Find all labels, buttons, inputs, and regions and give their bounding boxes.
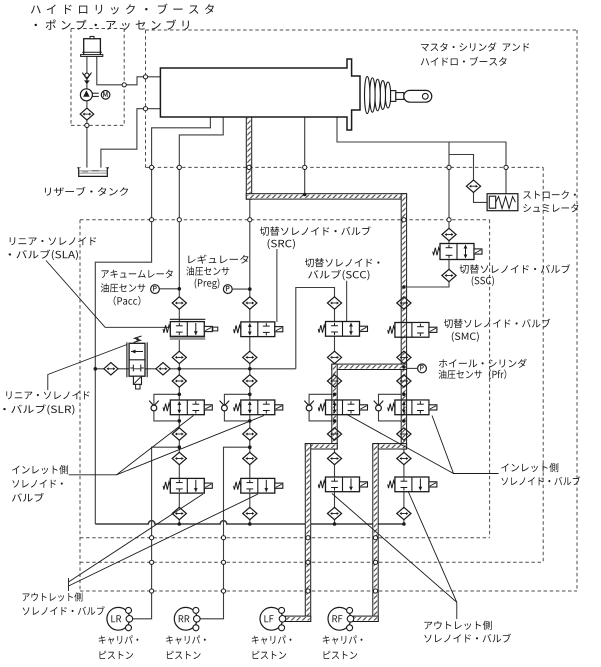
wire accumulator line vertical to tank: [86, 56, 88, 168]
junction FR bypass bottom: [402, 419, 406, 423]
outlet solenoid valve FR: [395, 477, 429, 492]
label SMC line1: [444, 319, 550, 328]
junction Preg tap: [248, 287, 252, 291]
dashed box B right edge x=490: [489, 220, 491, 538]
filter above SLA: [172, 297, 186, 309]
junction SSC to main: [402, 285, 406, 289]
port Hout LR: [150, 589, 154, 593]
port H2 x506: [504, 165, 508, 169]
shared dashed left edge x=80: [79, 220, 81, 591]
port Hout RF: [373, 589, 377, 593]
label outlet left line1: [23, 592, 83, 601]
wire bridge to SCC: [296, 288, 335, 369]
label caliper LR line2: [99, 651, 133, 659]
accumulator: [84, 39, 101, 56]
filter (pump suction): [80, 108, 94, 120]
hatched pipe MC port3 down: [246, 117, 251, 199]
inlet solenoid valve RR: [241, 400, 275, 415]
label outlet left line2: [23, 606, 105, 615]
label Pacc line3: [114, 296, 141, 306]
caliper piston RF: [328, 607, 351, 630]
port H3 x152: [150, 218, 154, 222]
filter below inlet FR: [397, 428, 411, 440]
port H2 x179: [177, 165, 181, 169]
dashed box B top edge y=220: [80, 219, 490, 221]
port H3 x250: [248, 218, 252, 222]
dashed box A right edge x=543: [542, 167, 544, 562]
master cylinder and hydro booster body: [160, 59, 360, 130]
linear solenoid valve SLR: [126, 342, 128, 377]
inlet solenoid valve FL: [326, 400, 360, 415]
switching solenoid valve SSC: [440, 244, 474, 260]
label SCC line2: [308, 270, 369, 281]
bypass check valve FR: [374, 401, 384, 406]
port MC supply: [143, 75, 147, 79]
hatched pipe Pfr row y=367: [332, 364, 407, 369]
filter above inlet LR: [172, 375, 186, 387]
outer actuator dashed box bottom edge: [80, 590, 577, 592]
label SLR line1: [6, 391, 89, 399]
outer actuator dashed box right edge: [576, 30, 578, 591]
label Pfr line1: [439, 359, 527, 368]
label caliper RF line1: [323, 635, 363, 644]
motor M: [101, 91, 110, 100]
filter below SCC: [327, 351, 341, 363]
label Pacc line2: [101, 283, 146, 292]
label caliper LR line1: [99, 635, 139, 644]
label SSC line1: [459, 264, 570, 273]
junction SLA output: [178, 367, 182, 371]
hatched pipe LF feed vertical x=308: [305, 444, 310, 622]
pointer SRC label: [276, 249, 278, 322]
wire SSC branch: [404, 142, 449, 287]
junction FL bypass bottom: [333, 419, 337, 423]
filter above inlet FR: [397, 375, 411, 387]
label hydraulic booster pump line1: [31, 4, 214, 15]
booster boot bellows: [385, 82, 390, 108]
label caliper RR line2: [167, 651, 201, 659]
pointer SLR label: [48, 345, 127, 391]
wire inlet FR bypass loop: [379, 394, 404, 421]
filter above SCC: [327, 297, 341, 309]
port HA LR: [150, 560, 154, 564]
label caliper LF line2: [253, 651, 287, 659]
label inlet right line2: [501, 476, 580, 485]
filter below inlet RR: [243, 428, 257, 440]
junction Pacc tap: [178, 287, 182, 291]
filter below outlet LR: [172, 507, 186, 519]
label hydraulic booster pump line2: [35, 19, 189, 30]
junction LR bypass top: [178, 393, 182, 397]
wire inlet RR bypass loop: [224, 394, 249, 421]
wire inlet FL bypass loop: [309, 394, 334, 421]
port H2 x249: [247, 165, 251, 169]
wire SLR branch y=369: [95, 368, 295, 370]
dashed box A bottom edge y=562: [80, 561, 543, 563]
label outlet right line2: [424, 634, 511, 643]
label Pfr line2: [438, 370, 506, 380]
label SLR line2: [3, 404, 74, 415]
bypass check valve RR: [220, 401, 230, 406]
junction return FL: [333, 522, 337, 526]
filter below inlet FL: [327, 428, 341, 440]
wire front-left column x=334: [334, 303, 336, 524]
caliper piston RR: [174, 607, 197, 630]
junction return FR: [402, 522, 406, 526]
filter above SRC: [243, 297, 257, 309]
hatched pipe corner to RF feed: [373, 444, 407, 449]
junction FR bypass top: [402, 393, 406, 397]
label reserve tank: [45, 187, 128, 196]
switching solenoid valve SRC: [241, 322, 275, 337]
filter right of SLR: [156, 363, 170, 375]
junction SLR return: [94, 367, 98, 371]
junction LR bypass bottom: [178, 419, 182, 423]
label master cylinder line1: [421, 42, 529, 51]
wire MC port1 return path: [95, 117, 210, 524]
junction RR bypass bottom: [248, 419, 252, 423]
port pump node: [122, 83, 126, 87]
wire Pfr sensor stub: [407, 367, 418, 369]
port H2 x305: [303, 165, 307, 169]
filter below outlet RR: [243, 507, 257, 519]
push rod clevis: [391, 91, 396, 102]
label SSC line2: [472, 276, 494, 286]
inlet solenoid valve FR: [395, 400, 429, 415]
inlet solenoid valve LR: [170, 400, 204, 415]
bypass check valve LR: [149, 401, 159, 406]
filter above SSC: [442, 228, 456, 240]
outlet solenoid valve FL: [326, 477, 360, 492]
pressure sensor Preg: [223, 285, 232, 294]
filter above SMC: [397, 297, 411, 309]
junction return LR: [178, 522, 182, 526]
label caliper RF line2: [324, 651, 358, 659]
junction RR takeoff: [248, 445, 252, 449]
filter above outlet RR: [243, 452, 257, 464]
junction FL bypass top: [333, 393, 337, 397]
pointer inlet right label: [432, 416, 499, 474]
switching solenoid valve SCC: [326, 322, 360, 337]
motor M letter: [103, 92, 107, 97]
push rod eye: [404, 90, 432, 102]
wire inlet LR bypass loop: [154, 394, 179, 421]
outlet solenoid valve LR: [170, 478, 204, 493]
port HB LR: [150, 536, 154, 540]
wire front-right column x=404: [403, 367, 405, 524]
pointer SCC label: [346, 281, 348, 322]
label Preg line2: [186, 266, 229, 275]
outlet solenoid valve RR: [241, 478, 275, 493]
port H3 x449: [447, 218, 451, 222]
wire pump output to master cylinder: [97, 56, 161, 85]
wire return manifold: [95, 521, 404, 524]
port H3 x179: [177, 218, 181, 222]
filter above outlet LR: [172, 452, 186, 464]
label SLA line1: [10, 237, 96, 245]
outer actuator dashed box top edge: [146, 29, 578, 31]
junction SRC output: [248, 367, 252, 371]
caliper piston LR: [107, 607, 130, 630]
pump P1: [80, 89, 92, 101]
port Hout RR: [221, 589, 225, 593]
pointer outlet left label: [68, 578, 70, 591]
label Preg line1: [188, 255, 248, 264]
port H2 x152: [150, 165, 154, 169]
linear solenoid valve SLA: [170, 336, 206, 340]
wire LR takeoff: [132, 447, 179, 619]
dashed box B bottom edge y=538: [80, 537, 490, 539]
port HB RR: [221, 536, 225, 540]
pointer SLA label: [46, 261, 169, 328]
junction hatched Pfr node: [402, 365, 406, 369]
dashed box A top edge y=167: [146, 166, 544, 168]
label SMC line2: [452, 332, 479, 342]
stroke simulator: [487, 194, 518, 211]
filter below inlet LR: [172, 428, 186, 440]
hatched pipe front-left vertical x=334: [332, 364, 337, 449]
hatched pipe main vertical x=404: [401, 194, 406, 449]
junction return RR: [248, 522, 252, 526]
wire simulator inlet branch: [449, 155, 474, 180]
label SCC line1: [305, 258, 380, 267]
junction RR bypass top: [248, 393, 252, 397]
port HB LF: [306, 536, 310, 540]
filter below SMC: [397, 351, 411, 363]
filter below outlet FR: [397, 507, 411, 519]
label inlet left line3: [12, 493, 44, 502]
filter below SSC: [442, 269, 456, 281]
hatched pipe corner to LF feed: [305, 444, 337, 449]
outer dashed box upper-left edge: [145, 30, 147, 167]
wire simulator inlet lower: [474, 193, 488, 203]
port HA RF: [373, 560, 377, 564]
filter above inlet RR: [243, 375, 257, 387]
filter above outlet FL: [327, 452, 341, 464]
port HA RR: [221, 560, 225, 564]
filter left of SLR: [104, 363, 118, 375]
filter below outlet FL: [327, 507, 341, 519]
filter above outlet FR: [397, 452, 411, 464]
pump assembly dashed enclosure: [71, 28, 124, 30]
label caliper LF line1: [252, 635, 292, 644]
port H2 x449: [447, 165, 451, 169]
junction LR takeoff: [178, 445, 182, 449]
port Hout LF: [306, 589, 310, 593]
filter (simulator inlet): [466, 180, 480, 192]
hatched pipe into LF caliper: [286, 616, 311, 621]
port HA LF: [306, 560, 310, 564]
wire MC port2 drop: [179, 117, 223, 524]
wire MC to stroke simulator y=142: [337, 117, 506, 194]
wire master cylinder return to tank: [101, 109, 160, 168]
pointer inlet left label: [69, 416, 194, 475]
pointer outlet right label: [456, 602, 458, 619]
caliper piston LF: [260, 607, 283, 630]
filter below SRC: [243, 351, 257, 363]
label master cylinder line2: [421, 57, 507, 66]
label SRC line1: [260, 226, 371, 235]
label inlet left line2: [12, 480, 62, 488]
junction MC port4 to pipe: [303, 193, 307, 197]
filter above inlet FL: [327, 375, 341, 387]
pressure sensor Pacc: [151, 285, 160, 294]
wire RR takeoff: [199, 447, 250, 619]
wire rear pressure line x=250: [249, 196, 251, 524]
hatched pipe into RF caliper: [354, 616, 379, 621]
label SRC line2: [268, 239, 295, 249]
filter below SLA: [172, 351, 186, 363]
hatched pipe RF feed vertical x=375: [373, 444, 378, 622]
bypass check valve FL: [304, 401, 314, 406]
port MC return: [143, 107, 147, 111]
wire MC port4 x=305: [304, 117, 306, 196]
reservoir tank: [77, 168, 109, 175]
check valve (pump outlet): [82, 73, 91, 80]
label SLA line2: [9, 250, 78, 261]
label caliper RR line1: [166, 635, 206, 644]
port HB RF: [373, 536, 377, 540]
label Pacc line1: [101, 269, 172, 278]
label outlet right line1: [424, 621, 491, 630]
label inlet right line1: [501, 463, 558, 472]
label stroke simulator line2: [523, 204, 578, 213]
switching solenoid valve SMC: [395, 323, 429, 338]
wire Preg sensor stub: [232, 288, 250, 290]
hatched pipe upper horizontal y=196: [246, 194, 406, 199]
label Preg line3: [195, 278, 220, 289]
port pump box bottom: [85, 123, 89, 127]
port H3 x404: [402, 218, 406, 222]
label inlet left line1: [12, 465, 68, 474]
pressure sensor Pfr: [418, 364, 427, 373]
label stroke simulator line1: [523, 190, 576, 199]
wire Pacc sensor stub: [159, 288, 179, 290]
